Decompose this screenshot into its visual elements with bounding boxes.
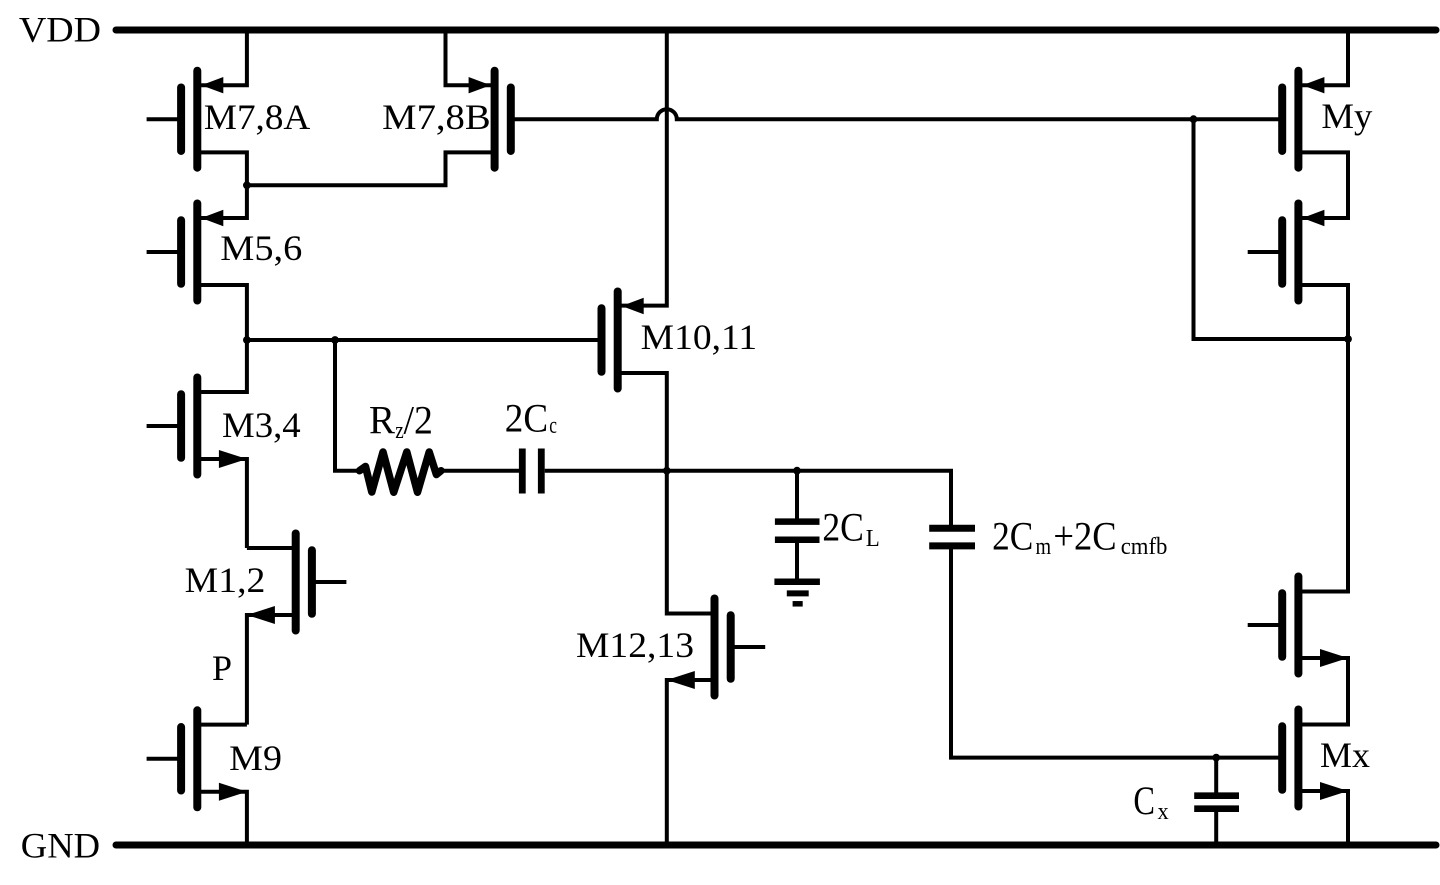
svg-text:2C: 2C xyxy=(822,504,864,549)
svg-text:M1,2: M1,2 xyxy=(185,560,266,600)
source arrow M5,6 xyxy=(201,210,223,226)
svg-text:2C: 2C xyxy=(505,395,548,440)
wire 2CL to ground xyxy=(795,540,799,582)
transistor M1,2 (NMOS, mirrored) xyxy=(308,550,316,614)
wire node C down to resistor xyxy=(335,340,360,471)
capacitor 2Cc xyxy=(519,449,526,494)
capacitor 2CL xyxy=(775,518,820,525)
wire M9 drain lead xyxy=(197,723,247,727)
wire M12,13 source to GND xyxy=(667,680,715,845)
source arrow M7,8A xyxy=(201,77,223,93)
wire M9 source to GND xyxy=(197,792,247,845)
wire Cx to GND xyxy=(1214,811,1218,845)
transistor PMOS cascode (below My) xyxy=(1278,220,1286,284)
node G junction (Cx tap) xyxy=(1212,754,1220,762)
transistor Mx (NMOS) xyxy=(1278,726,1286,790)
wire VDD to M7,8B source xyxy=(446,30,495,85)
wire M10,11 drain to node D xyxy=(618,373,667,471)
svg-text:M5,6: M5,6 xyxy=(220,228,302,268)
node A junction xyxy=(243,181,251,189)
source arrow NMOS cascode xyxy=(1320,649,1348,667)
wire NMOS cascode source to Mx drain xyxy=(1298,658,1348,725)
svg-text:cmfb: cmfb xyxy=(1121,534,1168,560)
source arrow My xyxy=(1302,77,1324,93)
transistor My (PMOS) xyxy=(1278,87,1286,151)
svg-text:M3,4: M3,4 xyxy=(222,405,301,445)
svg-text:Mx: Mx xyxy=(1320,735,1370,775)
transistor M7,8B (PMOS, mirrored) xyxy=(507,87,515,151)
source arrow Mx xyxy=(1320,782,1348,800)
svg-text:P: P xyxy=(212,648,232,688)
node H junction (feedback tap) xyxy=(1190,115,1198,123)
wire M5,6 source to node A xyxy=(197,185,247,218)
node F junction (2CL tap) xyxy=(793,467,801,475)
wire M7,8A drain to node A xyxy=(197,152,247,185)
wire resistor to capacitor 2Cc xyxy=(440,469,519,473)
svg-text:x: x xyxy=(1158,799,1169,825)
source arrow M10,11 xyxy=(622,298,644,314)
capacitor Cx xyxy=(1194,792,1239,799)
node B junction xyxy=(243,336,251,344)
wire cascode drain to node I xyxy=(1298,285,1348,339)
svg-text:C: C xyxy=(1133,778,1155,823)
wire M5,6 drain to node B xyxy=(197,285,247,340)
wire Mx source to GND xyxy=(1298,791,1348,845)
wire My drain to cascode source xyxy=(1298,152,1348,218)
wire VDD to M10,11 source xyxy=(618,30,667,306)
wire 2Cm to Mx gate xyxy=(951,549,1279,758)
transistor M3,4 (NMOS) xyxy=(177,394,185,458)
svg-text:M7,8B: M7,8B xyxy=(382,97,491,137)
svg-text:L: L xyxy=(866,526,880,552)
svg-text:M9: M9 xyxy=(229,738,282,778)
source arrow PMOS cascode xyxy=(1302,210,1324,226)
transistor M12,13 (NMOS, mirrored) xyxy=(727,615,735,679)
svg-text:My: My xyxy=(1321,96,1372,136)
transistor NMOS cascode (above Mx) xyxy=(1278,593,1286,657)
VDD power rail xyxy=(116,27,1436,34)
source arrow M1,2 xyxy=(247,606,275,624)
svg-text:+2C: +2C xyxy=(1053,513,1116,558)
svg-text:/2: /2 xyxy=(404,398,433,443)
svg-text:R: R xyxy=(369,398,395,443)
wire node A to M7,8B drain xyxy=(247,152,495,185)
ground symbol xyxy=(774,578,820,585)
wire M3,4 drain to node B xyxy=(197,340,247,392)
resistor Rz/2 xyxy=(360,452,442,492)
capacitor 2Cm+2Ccmfb xyxy=(929,525,975,532)
wire node F to 2CL xyxy=(795,471,799,521)
source arrow M7,8B xyxy=(469,77,491,93)
wire 2Cc to node E and 2Cm corner xyxy=(545,471,951,525)
wire M7,8B gate to My gate (with hop over center bus) xyxy=(511,109,1279,119)
wire M1,2 source to node P xyxy=(247,615,296,725)
svg-text:c: c xyxy=(549,413,557,439)
wire node I to NMOS cascode drain xyxy=(1298,339,1348,592)
svg-text:M10,11: M10,11 xyxy=(641,317,758,357)
wire M1,2 drain lead xyxy=(247,546,296,550)
svg-text:M7,8A: M7,8A xyxy=(204,97,310,137)
transistor M7,8A (PMOS) xyxy=(177,87,185,151)
wire node H down to node I xyxy=(1194,119,1349,339)
wire My source to VDD xyxy=(1298,30,1348,85)
svg-text:GND: GND xyxy=(21,826,100,866)
node C junction (Rz branch) xyxy=(331,336,339,344)
node I junction xyxy=(1344,335,1352,343)
wire node B to M10,11 gate xyxy=(247,338,602,342)
GND power rail xyxy=(116,842,1436,849)
source arrow M3,4 xyxy=(219,450,247,468)
svg-text:2C: 2C xyxy=(992,513,1033,558)
node D junction xyxy=(663,467,671,475)
wire M7,8A source to VDD xyxy=(197,30,247,85)
source arrow M9 xyxy=(219,783,247,801)
transistor M5,6 (PMOS) xyxy=(177,220,185,284)
wire M3,4 source to M1,2 drain xyxy=(197,459,247,548)
wire node G to Cx xyxy=(1214,758,1218,793)
transistor M9 (NMOS) xyxy=(177,727,185,791)
svg-text:m: m xyxy=(1036,534,1052,560)
transistor M10,11 (PMOS) xyxy=(598,308,606,372)
svg-text:M12,13: M12,13 xyxy=(576,625,694,665)
svg-text:VDD: VDD xyxy=(19,10,101,50)
source arrow M12,13 xyxy=(667,671,695,689)
wire node D to M12,13 drain xyxy=(667,471,715,614)
